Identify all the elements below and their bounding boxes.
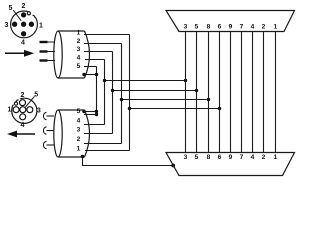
- X2 socket 2 (top): [20, 100, 26, 106]
- keying notch on X1 face: [27, 11, 35, 18]
- connector X1 side view (top cylinder): [54, 31, 90, 78]
- junction X2 shell bottom: [81, 155, 84, 158]
- wire X2 pin5 to v5: [84, 114, 97, 116]
- tap wire v4 to D-SUB pin 3: [105, 80, 186, 82]
- socket contact mark 1 (bottom connector): [44, 112, 55, 119]
- junction D-SUB column 6: [218, 107, 221, 110]
- svg-text:1: 1: [274, 23, 278, 30]
- svg-text:3: 3: [184, 154, 188, 161]
- svg-text:9: 9: [229, 154, 233, 161]
- connector X1 face view (M12 male, top left): [11, 11, 38, 38]
- svg-text:6: 6: [218, 23, 222, 30]
- wire X2 pin3 to v3: [84, 133, 113, 135]
- D-SUB column wire 7: [241, 32, 243, 153]
- junction v1 tap: [128, 107, 131, 110]
- X2 socket 5 (center): [20, 107, 26, 113]
- wire stub 1 (top plug): [40, 41, 56, 43]
- keying notch on X2 face: [13, 99, 19, 106]
- junction D-SUB housing: [171, 164, 175, 168]
- svg-text:3: 3: [77, 127, 81, 134]
- D-SUB column wire 5: [196, 32, 198, 153]
- socket contact mark 2 (bottom connector): [44, 127, 55, 134]
- svg-text:3: 3: [5, 22, 9, 29]
- vertical wire v1 (pin1 bus): [129, 35, 131, 151]
- svg-text:4: 4: [21, 122, 25, 129]
- tap wire v3 to D-SUB pin 5: [113, 90, 197, 92]
- svg-text:2: 2: [262, 23, 266, 30]
- svg-text:1: 1: [77, 30, 81, 37]
- wire X2 pin1 to v1: [85, 150, 130, 152]
- shield wire X2 shell to D-SUB housing: [83, 157, 174, 166]
- vertical wire v2 (pin2 bus): [121, 44, 123, 144]
- arrow left (mating direction X2): [7, 131, 35, 138]
- svg-text:5: 5: [195, 154, 199, 161]
- junction D-SUB column 3: [184, 79, 187, 82]
- D-SUB connector housing bottom (trapezoid): [166, 153, 295, 176]
- junction v3 tap: [111, 89, 114, 92]
- svg-text:5: 5: [77, 108, 81, 115]
- X1 pin 1 (right): [29, 22, 34, 27]
- shield tap wire X2 shell to v5: [84, 111, 97, 113]
- X2 socket 4 (bottom): [20, 114, 26, 120]
- svg-text:4: 4: [21, 40, 25, 47]
- svg-text:8: 8: [207, 154, 211, 161]
- svg-text:4: 4: [251, 23, 255, 30]
- leader line label 5 to center pin: [13, 10, 21, 21]
- junction D-SUB column 5: [195, 89, 198, 92]
- svg-text:6: 6: [218, 154, 222, 161]
- D-SUB column wire 3: [185, 32, 187, 153]
- wire X1 pin3 to vertical v3: [84, 51, 113, 53]
- wire X2 pin2 to v2: [84, 143, 122, 145]
- svg-text:4: 4: [77, 117, 81, 124]
- wire X1 pin2 to vertical v2: [84, 43, 122, 45]
- D-SUB connector housing top (trapezoid): [166, 11, 295, 32]
- connector X2 face view (M12 female, bottom left): [12, 98, 37, 123]
- wire X1 pin5 to vertical v5: [84, 66, 97, 68]
- D-SUB column wire 2: [263, 32, 265, 153]
- svg-text:5: 5: [195, 23, 199, 30]
- svg-text:3: 3: [37, 107, 41, 114]
- svg-text:1: 1: [274, 154, 278, 161]
- vertical wire v5 (pin5/shield bus): [96, 67, 98, 115]
- tap wire v2 to D-SUB pin 8: [122, 99, 209, 101]
- D-SUB column wire 1: [275, 32, 277, 153]
- X2 socket 3 (right): [27, 107, 33, 113]
- junction v4 tap: [103, 79, 106, 82]
- svg-text:4: 4: [77, 54, 81, 61]
- wire X1 pin1 to vertical v1: [84, 34, 130, 36]
- wire X1 pin4 to vertical v4: [85, 59, 105, 61]
- junction v2 tap: [120, 98, 123, 101]
- D-SUB column wire 8: [208, 32, 210, 153]
- wire stub 3 (top plug): [40, 59, 56, 61]
- svg-text:2: 2: [262, 154, 266, 161]
- junction v5 end: [95, 110, 98, 113]
- junction X1 shell: [82, 73, 85, 76]
- connector X2 side view (bottom cylinder): [54, 110, 90, 157]
- svg-text:2: 2: [20, 92, 24, 99]
- wire stub 2 (top plug): [40, 50, 56, 52]
- svg-text:1: 1: [8, 107, 12, 114]
- shield tap wire X1 shell to v5: [84, 74, 97, 76]
- D-SUB top pin number row: 3 5 8 6 9 7 4 2 1: [184, 23, 278, 30]
- junction X2 shell top: [82, 110, 85, 113]
- leader line label 5 to center socket: [26, 96, 35, 107]
- svg-text:5: 5: [9, 5, 13, 12]
- svg-text:2: 2: [77, 136, 81, 143]
- svg-text:2: 2: [22, 3, 26, 10]
- svg-text:8: 8: [207, 23, 211, 30]
- svg-text:7: 7: [240, 154, 244, 161]
- X1 pin 4 (bottom): [21, 31, 26, 36]
- X1 pin 2 (top): [21, 12, 26, 17]
- vertical wire v4 (pin4 bus): [104, 60, 106, 125]
- junction v5 / X1 shell: [95, 73, 98, 76]
- wire X2 pin4 to v4: [84, 124, 105, 126]
- svg-text:5: 5: [77, 63, 81, 70]
- D-SUB column wire 4: [252, 32, 254, 153]
- X2 socket 1 (left): [13, 107, 19, 113]
- arrow right (mating direction X1): [5, 50, 34, 57]
- svg-text:3: 3: [77, 46, 81, 53]
- svg-text:3: 3: [184, 23, 188, 30]
- socket contact mark 3 (bottom connector): [44, 141, 55, 148]
- svg-text:1: 1: [39, 23, 43, 30]
- tap wire v1 to D-SUB pin 6: [130, 108, 220, 110]
- D-SUB bottom pin number row: 3 5 8 6 9 7 4 2 1: [184, 154, 278, 161]
- svg-text:4: 4: [251, 154, 255, 161]
- svg-text:9: 9: [229, 23, 233, 30]
- D-SUB column wire 9: [230, 32, 232, 153]
- svg-text:2: 2: [77, 38, 81, 45]
- svg-text:1: 1: [77, 145, 81, 152]
- svg-text:5: 5: [34, 92, 38, 99]
- junction X2 pin5 corner: [95, 113, 98, 116]
- X1 pin 3 (left): [12, 22, 17, 27]
- junction D-SUB column 8: [207, 98, 210, 101]
- svg-text:7: 7: [240, 23, 244, 30]
- X1 pin 5 (center): [21, 22, 26, 27]
- D-SUB column wire 6: [219, 32, 221, 153]
- vertical wire v3 (pin3 bus): [112, 52, 114, 134]
